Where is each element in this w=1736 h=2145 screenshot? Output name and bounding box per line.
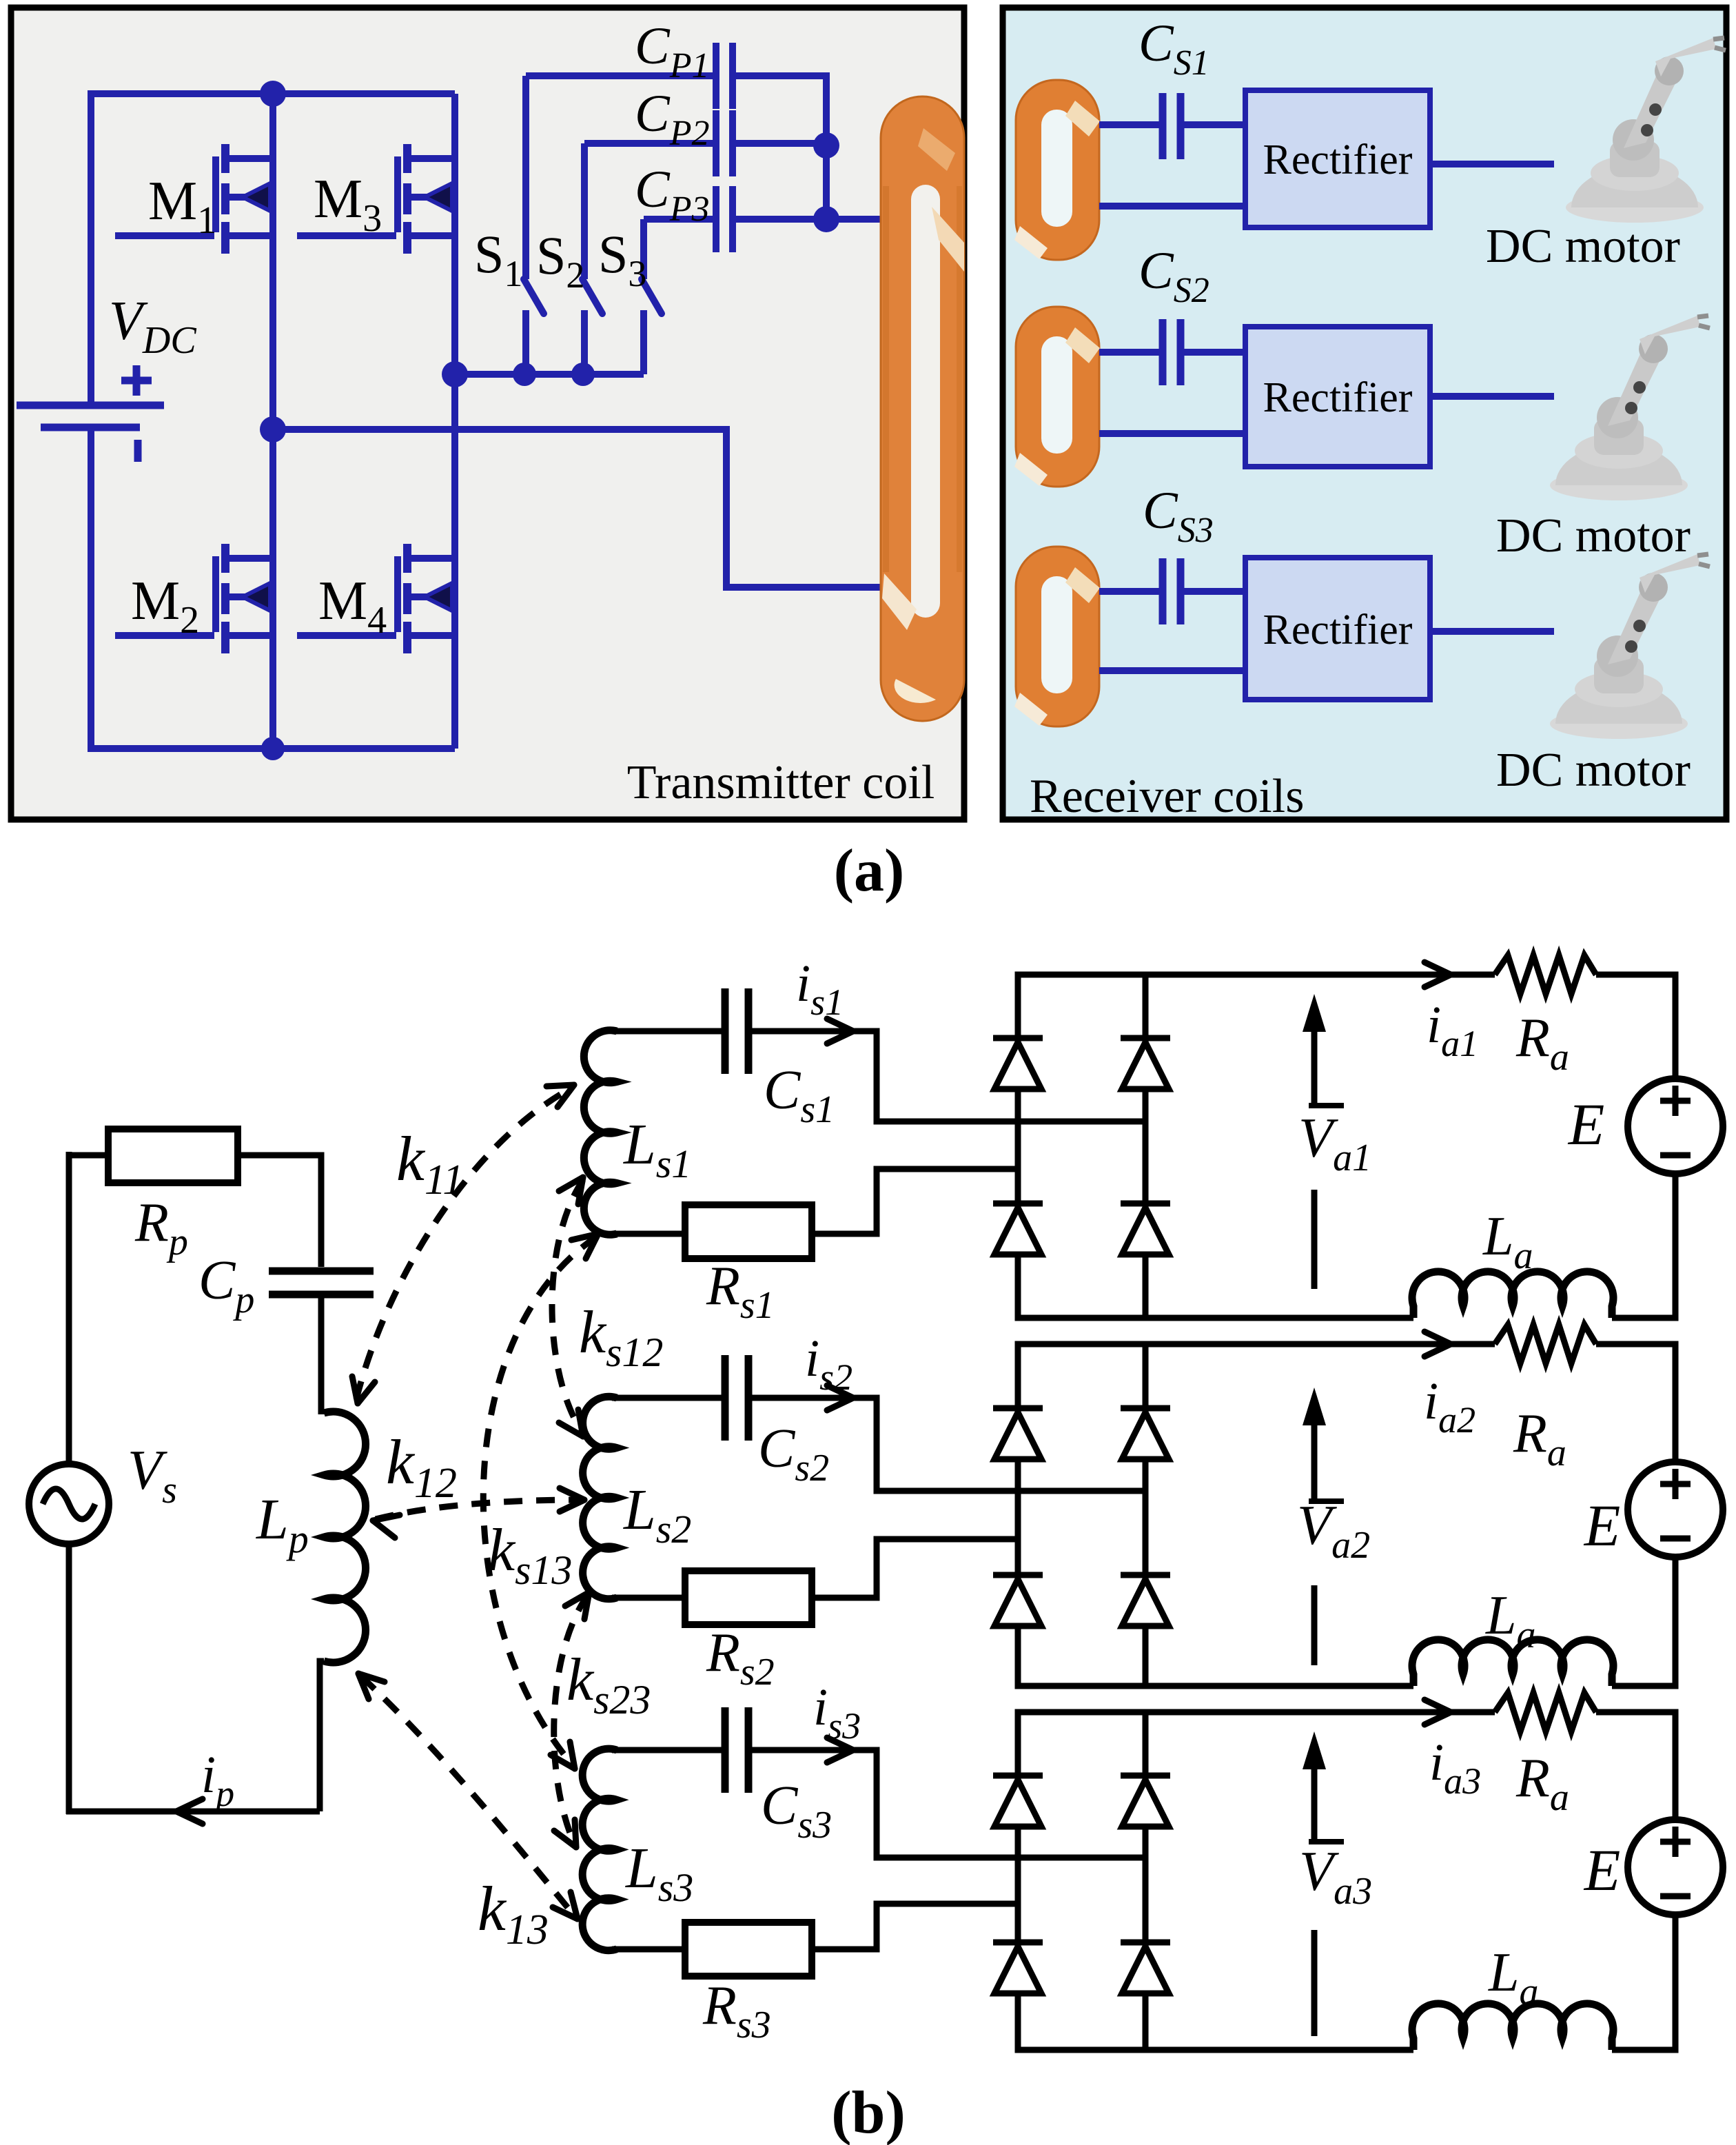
DC motor robot 1 [1566, 38, 1726, 223]
rectifier box 2 [1245, 327, 1430, 467]
resistor Rs2 [685, 1571, 812, 1625]
wire CS1 to rectifier [1184, 121, 1245, 128]
receiver coil 2 (orange) [1014, 307, 1100, 487]
DC motor robot 2 [1550, 316, 1710, 500]
capacitor Cp [269, 1268, 374, 1275]
coupling k13 dashed arrow [361, 1676, 575, 1916]
wire Rs2 to bridge [812, 1539, 1018, 1598]
wire E to La (circuit 1) [1612, 1174, 1675, 1318]
svg-text:Rectifier: Rectifier [1263, 374, 1413, 421]
top rail wire [88, 90, 455, 97]
receiver box (panel a right) [1003, 8, 1726, 820]
wire VDC negative to bottom rail [88, 427, 94, 749]
diode right top (bridge 1) [1121, 1035, 1170, 1041]
wire E to La (circuit 3) [1612, 1915, 1675, 2050]
wire Ls2 top [612, 1395, 725, 1401]
wire CP junction down [823, 145, 830, 219]
svg-text:(b): (b) [831, 2080, 906, 2145]
wire coil3 lower to rectifier [1099, 667, 1245, 674]
wire output A to coil bottom [273, 429, 884, 587]
wire CP1 right [736, 76, 826, 145]
diode bridge 1 left leg and rails [1018, 975, 1495, 1318]
wire Lp bottom [320, 1661, 324, 1811]
switch S3 [642, 219, 662, 374]
transmitter coil (orange racetrack coil) [881, 96, 964, 721]
node top rail / M1 drain [260, 81, 286, 107]
wire CP3 loop [644, 216, 713, 223]
inductor La (circuit 3) [1412, 2004, 1613, 2050]
node inverter midpoint A (M1/M2) [260, 416, 286, 443]
source E (circuit 2) [1628, 1462, 1723, 1557]
wire CP2 right [736, 140, 826, 147]
wire Rp left [66, 1152, 108, 1159]
diode right bottom (bridge 3) [1121, 1940, 1170, 1946]
wire Ls2 bottom [612, 1595, 685, 1601]
transmitter box (panel a left) [11, 8, 964, 820]
transistor M2 (MOSFET) [115, 544, 273, 653]
wire rectifier 2 to DC motor [1430, 393, 1554, 400]
wire Cs1 to bridge [748, 1031, 1145, 1121]
wire rectifier 3 to DC motor [1430, 628, 1554, 635]
wire Rs1 to bridge [812, 1169, 1018, 1234]
capacitor CP1 [713, 43, 719, 109]
annotation Va1 lower line [1311, 1190, 1318, 1289]
coupling ks12 dashed arrow [552, 1180, 583, 1434]
inductor Lp [324, 1412, 366, 1663]
coupling k11 dashed arrow [356, 1088, 572, 1399]
wire primary bottom [66, 1809, 320, 1815]
bottom rail wire [88, 745, 455, 752]
svg-text:E: E [1567, 1091, 1605, 1157]
arrow ia2 [1424, 1332, 1451, 1344]
receiver coil 3 (orange) [1014, 547, 1100, 726]
arrow ia1 [1424, 962, 1451, 975]
diode left bottom (bridge 2) [993, 1572, 1043, 1578]
svg-text:DC motor: DC motor [1496, 744, 1691, 797]
diode bridge 3 right leg [1143, 1712, 1149, 2050]
switch S1 [524, 76, 544, 374]
arrow ia3 [1424, 1700, 1451, 1712]
wire rectifier 1 to DC motor [1430, 161, 1554, 167]
wire Cs3 to bridge [748, 1750, 1145, 1858]
diode bridge 2 right leg [1143, 1344, 1149, 1686]
arrow ip [176, 1811, 203, 1824]
node inverter midpoint B (M3/M4) [442, 361, 468, 387]
wire Rp to Cp corner [238, 1155, 321, 1267]
node CP1/CP2 [813, 132, 839, 159]
wire CP2 loop [584, 140, 713, 147]
wire CS2 to rectifier [1184, 349, 1245, 356]
wire left inverter leg [269, 94, 276, 749]
node S1 bus [513, 363, 536, 386]
capacitor CS3 [1159, 558, 1167, 624]
annotation Va2 arrow [1311, 1415, 1318, 1498]
wire Cs2 to bridge [748, 1398, 1145, 1491]
coupling ks13 dashed arrow [483, 1237, 597, 1766]
VDC plus sign [121, 377, 152, 385]
diode left top (bridge 1) [993, 1035, 1043, 1041]
wire CP1 loop [526, 72, 713, 79]
rectifier box 1 [1245, 90, 1430, 227]
wire E to La (circuit 2) [1612, 1557, 1675, 1686]
wire coil1 to CS1 [1099, 121, 1159, 128]
diode right top (bridge 3) [1121, 1773, 1170, 1779]
node bottom rail / M2 source [261, 737, 285, 760]
diode left bottom (bridge 3) [993, 1940, 1043, 1946]
node CP3 junction [813, 206, 839, 232]
capacitor CP3 [713, 186, 719, 252]
wire Ls3 bottom [612, 1946, 685, 1953]
diode right bottom (bridge 1) [1121, 1201, 1170, 1207]
diode right top (bridge 2) [1121, 1405, 1170, 1412]
inductor La (circuit 2) [1412, 1640, 1613, 1686]
capacitor Cs1 [722, 988, 729, 1074]
wire Ls1 bottom [612, 1231, 685, 1237]
VDC minus tick [134, 440, 142, 462]
DC motor robot 3 [1550, 554, 1710, 739]
transistor M3 (MOSFET) [297, 144, 455, 254]
svg-text:Transmitter coil: Transmitter coil [627, 756, 935, 809]
rectifier box 3 [1245, 558, 1430, 700]
resistor Rs1 [685, 1205, 812, 1259]
arrow is1 [827, 1019, 853, 1031]
svg-text:E: E [1583, 1837, 1621, 1903]
wire switch bus (output B) [455, 371, 644, 378]
wire right inverter leg [451, 94, 458, 749]
resistor Rs3 [685, 1922, 812, 1976]
svg-text:Rectifier: Rectifier [1263, 136, 1413, 183]
switch S2 [582, 143, 602, 374]
capacitor Cs3 [722, 1707, 729, 1793]
capacitor CS1 [1159, 93, 1167, 159]
diode left top (bridge 3) [993, 1773, 1043, 1779]
wire Vs bottom [66, 1544, 72, 1814]
arrow is3 [827, 1738, 853, 1750]
battery VDC [17, 402, 164, 409]
inductor Ls3 [582, 1749, 617, 1951]
resistor Ra (circuit 3) zigzag [1495, 1693, 1596, 1731]
annotation Va3 lower line [1311, 1930, 1318, 2036]
wire coil1 lower to rectifier [1099, 203, 1245, 210]
resistor Ra (circuit 2) zigzag [1495, 1325, 1596, 1363]
resistor Ra (circuit 1) zigzag [1495, 955, 1596, 994]
inductor Ls1 [584, 1030, 617, 1235]
arrow is2 [827, 1385, 853, 1398]
source E (circuit 1) [1628, 1079, 1723, 1174]
inductor Ls2 [583, 1396, 617, 1599]
coupling ks23 dashed arrow [554, 1595, 588, 1844]
wire Ra to E (circuit 1) [1596, 975, 1675, 1079]
wire Ra to E (circuit 2) [1596, 1344, 1675, 1462]
wire coil3 to CS3 [1099, 588, 1159, 595]
svg-text:DC motor: DC motor [1496, 509, 1691, 562]
svg-text:E: E [1583, 1492, 1621, 1558]
diode bridge 2 left leg and rails [1018, 1344, 1495, 1686]
transistor M1 (MOSFET) [115, 144, 273, 254]
diode left top (bridge 2) [993, 1405, 1043, 1412]
resistor Rp [108, 1129, 238, 1183]
annotation Va3 arrow [1311, 1759, 1318, 1839]
wire Rs3 to bridge [812, 1904, 1018, 1949]
capacitor Cs2 [722, 1355, 729, 1441]
svg-text:(a): (a) [834, 837, 905, 904]
node S2 bus [571, 363, 595, 386]
wire CS3 to rectifier [1184, 588, 1245, 595]
wire Ls1 top [612, 1028, 725, 1035]
capacitor CP2 [713, 110, 719, 176]
diode bridge 3 left leg and rails [1018, 1712, 1495, 2050]
coupling k12 dashed arrow [376, 1500, 582, 1519]
wire VDC positive to top rail [88, 94, 94, 405]
transistor M4 (MOSFET) [297, 544, 455, 653]
wire Ra to E (circuit 3) [1596, 1712, 1675, 1820]
capacitor CS2 [1159, 319, 1167, 385]
diode left bottom (bridge 1) [993, 1201, 1043, 1207]
annotation Va2 lower line [1311, 1585, 1318, 1665]
wire Vs top left vertical [66, 1152, 72, 1464]
wire coil2 lower to rectifier [1099, 430, 1245, 437]
inductor La (circuit 1) [1412, 1272, 1613, 1318]
source E (circuit 3) [1628, 1820, 1723, 1915]
diode right bottom (bridge 2) [1121, 1572, 1170, 1578]
svg-text:DC motor: DC motor [1486, 220, 1680, 273]
wire Ls3 top [612, 1747, 725, 1753]
receiver coil 1 (orange) [1014, 80, 1100, 260]
svg-text:Receiver coils: Receiver coils [1030, 770, 1304, 823]
wire Cp to Lp [318, 1294, 325, 1414]
diode bridge 1 right leg [1143, 975, 1149, 1318]
svg-text:Rectifier: Rectifier [1263, 607, 1413, 653]
wire CP3 right to coil [736, 216, 884, 223]
wire coil2 to CS2 [1099, 349, 1159, 356]
source Vs (AC) [29, 1464, 109, 1544]
annotation Va1 arrow [1311, 1021, 1318, 1103]
